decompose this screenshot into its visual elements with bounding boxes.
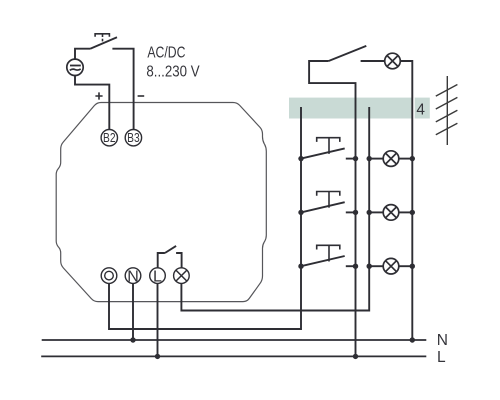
svg-text:N: N bbox=[127, 268, 139, 285]
wire lamp E1 to N column bbox=[400, 61, 412, 340]
junction L-terminal on L bus bbox=[155, 354, 160, 359]
svg-text:L: L bbox=[153, 268, 162, 285]
junction N-terminal on N bus bbox=[130, 337, 135, 342]
svg-text:B3: B3 bbox=[127, 130, 140, 145]
wall hatch symbol bbox=[436, 76, 458, 145]
junction row3 lamp feed bbox=[367, 264, 372, 269]
wire S1 contact to lamp E1 bbox=[361, 60, 385, 62]
relay contact K1 (internal) bbox=[158, 246, 182, 268]
label - bbox=[138, 95, 145, 97]
terminal X lamp output bbox=[174, 268, 190, 284]
label 4 backing gap bbox=[413, 98, 415, 119]
wire source bottom to B2 bbox=[75, 76, 109, 130]
wire L bus feed up to top switch S1 bbox=[309, 61, 355, 356]
junction row2 pole bbox=[298, 210, 303, 215]
wire source top to switch pole bbox=[75, 49, 91, 59]
wire X terminal to lamp column bbox=[181, 107, 369, 311]
junction row2 N column bbox=[410, 210, 415, 215]
junction N column on N bus bbox=[410, 337, 415, 342]
svg-text:AC/DC: AC/DC bbox=[147, 45, 185, 62]
svg-text:N: N bbox=[437, 332, 448, 349]
switch S1 blade bbox=[329, 46, 367, 61]
junction row2 lamp feed bbox=[367, 210, 372, 215]
label + bbox=[95, 92, 102, 99]
junction row1 pole bbox=[298, 156, 303, 161]
terminal N bbox=[125, 268, 141, 286]
wire L terminal to L bus bbox=[157, 283, 159, 356]
push-button S0 bbox=[91, 34, 118, 49]
wall band (4-wire run) bbox=[289, 98, 430, 119]
lamp E4 bbox=[369, 258, 412, 274]
push-button S2 bbox=[301, 138, 356, 159]
device outline (flush-mounted box) bbox=[56, 103, 266, 302]
junction row3 pole bbox=[298, 264, 303, 269]
push-button S3 bbox=[301, 192, 356, 213]
wire N terminal to N bus bbox=[132, 283, 134, 340]
svg-text:4: 4 bbox=[416, 101, 425, 118]
junction switch column on L bus bbox=[353, 354, 358, 359]
svg-text:L: L bbox=[437, 349, 446, 366]
junction row3 contact bbox=[353, 264, 358, 269]
junction row3 N column bbox=[410, 264, 415, 269]
wire switch contact to B3 bbox=[112, 49, 133, 130]
junction row1 lamp feed bbox=[367, 156, 372, 161]
terminal L bbox=[150, 268, 166, 286]
junction row1 N column bbox=[410, 156, 415, 161]
lamp E1 bbox=[385, 53, 401, 69]
lamp E2 bbox=[369, 151, 412, 167]
terminal O (dimmer output center) bbox=[101, 268, 117, 284]
junction row2 contact bbox=[353, 210, 358, 215]
L bus bbox=[41, 355, 426, 357]
junction row1 contact bbox=[353, 156, 358, 161]
N bus bbox=[42, 339, 427, 341]
svg-text:8...230 V: 8...230 V bbox=[146, 64, 200, 81]
terminal B2 bbox=[101, 130, 117, 146]
lamp E3 bbox=[369, 205, 412, 221]
push-button S4 bbox=[301, 245, 356, 266]
terminal B3 bbox=[125, 130, 141, 146]
source U1 (AC/DC supply) bbox=[67, 59, 83, 75]
svg-text:B2: B2 bbox=[103, 130, 116, 145]
wire O terminal to switch column bbox=[109, 107, 301, 329]
